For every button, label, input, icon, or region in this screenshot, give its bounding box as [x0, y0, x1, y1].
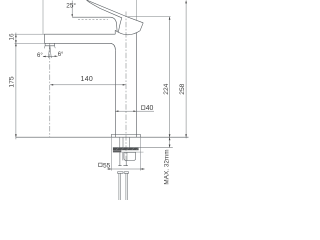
- neck hidden edge: [78, 19, 108, 21]
- clamp edge line: [121, 151, 143, 153]
- angle dim line 6deg: [43, 55, 58, 57]
- dimension line square55: [107, 168, 145, 170]
- svg-text:6°: 6°: [58, 52, 64, 58]
- svg-text:258: 258: [179, 83, 186, 94]
- extension line 16 top: [15, 33, 45, 35]
- arrow 140 left: [50, 84, 53, 86]
- neck profile with 25deg reference: [72, 17, 117, 31]
- arrow 16 bottom: [15, 40, 17, 43]
- label square55: [99, 162, 111, 169]
- arrow max32 top: [169, 137, 171, 140]
- dimension line 140: [50, 84, 126, 86]
- spout: [44, 34, 115, 50]
- dimension line square40: [115, 110, 154, 112]
- arrow 224 bottom: [169, 134, 171, 137]
- threaded shank: [120, 152, 126, 165]
- aerator bevel right: [54, 46, 57, 48]
- arrow 175 top: [15, 43, 17, 46]
- clamp block: [113, 150, 121, 152]
- svg-text:224: 224: [163, 83, 170, 94]
- hose nut left: [118, 172, 124, 174]
- svg-text:6°: 6°: [37, 53, 43, 59]
- arrow 175 bottom: [15, 134, 17, 137]
- angle arrow 6deg right: [55, 55, 58, 57]
- angle arrow 6deg left: [43, 56, 46, 58]
- leader 25deg: [71, 1, 73, 15]
- bench underside line: [113, 147, 173, 149]
- mounting shank upper verticals: [120, 138, 130, 148]
- arrow square40 right: [133, 110, 136, 112]
- dimension line 258: [185, 0, 187, 138]
- body column: [115, 33, 136, 137]
- extension line 16 bottom / 175 top: [15, 42, 45, 44]
- arrow max32 bottom: [169, 145, 171, 148]
- base flange plate: [111, 134, 140, 137]
- arrow 224 top: [169, 17, 171, 20]
- stream line right: [50, 46, 51, 58]
- clamp washer: [113, 148, 139, 151]
- extension line above body right edge (cropped top dim): [136, 0, 138, 20]
- bench line: [16, 136, 189, 138]
- arrow square55 right: [140, 168, 143, 170]
- arrow 258 top: [185, 0, 187, 3]
- arrow 25deg: [71, 14, 73, 17]
- arrow 140 right: [123, 84, 126, 86]
- centerline body: [125, 12, 127, 163]
- dimension line 224 and MAX32: [169, 17, 171, 148]
- svg-text:40: 40: [146, 105, 154, 112]
- extension line 224 top: [128, 16, 171, 18]
- svg-text:175: 175: [9, 76, 16, 87]
- extension line square55 right: [139, 138, 141, 171]
- hose nut right: [124, 172, 129, 174]
- aerator: [45, 43, 54, 46]
- aerator bevel left: [43, 46, 46, 49]
- dimension line 16 and 175: [15, 33, 17, 140]
- mounting nut: [124, 152, 136, 160]
- shank feet: [118, 165, 128, 167]
- svg-text:MAX. 32mm: MAX. 32mm: [164, 149, 171, 184]
- label square40: [141, 105, 153, 112]
- centerline outlet: [49, 44, 51, 137]
- svg-text:140: 140: [81, 76, 94, 83]
- stream line left: [48, 46, 49, 58]
- arrow 16 top: [15, 34, 17, 37]
- head cap: [115, 23, 143, 35]
- arrow square55 left: [108, 168, 111, 170]
- arrow square40 left: [115, 110, 118, 112]
- svg-text:55: 55: [103, 162, 111, 169]
- svg-text:16: 16: [9, 33, 16, 41]
- lever handle: [87, 0, 144, 32]
- arrow 258 bottom: [185, 134, 187, 137]
- svg-text:25°: 25°: [66, 2, 76, 10]
- extension line left of spout (cropped top dim): [42, 0, 44, 34]
- hose right: [126, 173, 128, 200]
- hose left: [119, 173, 121, 200]
- extension line square55 left: [110, 138, 112, 171]
